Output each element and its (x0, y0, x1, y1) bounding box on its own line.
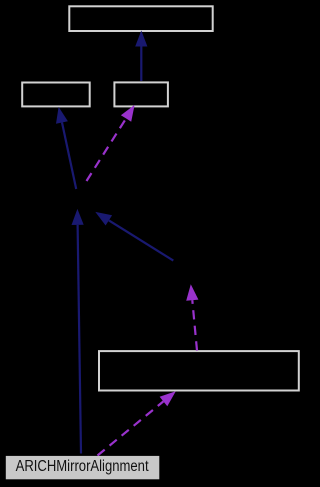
wire: dashed edge F shaft (large box to hidden node) (192, 300, 197, 350)
wire: dashed edge G shaft (ARICHMirrorAlignment to large box) (98, 401, 164, 455)
arrowhead A (135, 31, 147, 47)
arrowhead D (72, 209, 84, 225)
arrowhead F (186, 284, 198, 301)
node box large (hidden label) (99, 351, 299, 390)
arrowhead C (121, 105, 135, 122)
node box middle-right (hidden label) (114, 82, 167, 106)
wire: edge B shaft (junction to left box) (62, 123, 76, 190)
node box middle-left (hidden label) (22, 83, 90, 107)
node ARICHMirrorAlignment (6, 456, 160, 479)
arrowhead E (95, 212, 112, 226)
arrowhead B (56, 107, 68, 124)
svg-text:ARICHMirrorAlignment: ARICHMirrorAlignment (16, 458, 150, 475)
wire: edge D shaft (ARICHMirrorAlignment up to junction) (78, 225, 81, 454)
wire: inheritance edge A shaft (right box to top box) (140, 47, 142, 82)
arrowhead G (160, 391, 176, 406)
wire: edge E shaft (hidden node to junction) (109, 220, 173, 260)
wire: dashed edge C shaft (junction to right box) (87, 118, 127, 181)
node box top (hidden label) (69, 6, 212, 31)
